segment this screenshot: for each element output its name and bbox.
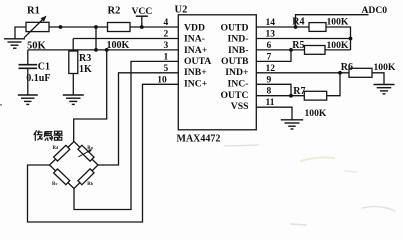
svg-text:R5: R5 bbox=[292, 40, 304, 51]
svg-text:R6: R6 bbox=[341, 62, 353, 73]
svg-text:IND-: IND- bbox=[228, 34, 249, 45]
svg-text:OUTB: OUTB bbox=[221, 56, 249, 67]
svg-text:R7: R7 bbox=[293, 86, 305, 97]
svg-text:VDD: VDD bbox=[184, 22, 205, 33]
svg-text:100K: 100K bbox=[374, 62, 396, 73]
svg-text:12: 12 bbox=[266, 64, 276, 74]
svg-text:MAX4472: MAX4472 bbox=[177, 133, 221, 144]
svg-text:13: 13 bbox=[266, 30, 276, 40]
svg-text:OUTA: OUTA bbox=[184, 56, 211, 67]
svg-text:IND+: IND+ bbox=[225, 67, 249, 78]
svg-text:INA-: INA- bbox=[184, 34, 205, 45]
svg-text:8: 8 bbox=[267, 87, 272, 97]
svg-text:10: 10 bbox=[157, 75, 167, 85]
svg-text:100K: 100K bbox=[327, 40, 349, 51]
svg-text:R2: R2 bbox=[108, 6, 121, 17]
svg-text:ADC0: ADC0 bbox=[362, 5, 388, 16]
svg-text:0.1uF: 0.1uF bbox=[26, 73, 50, 84]
svg-text:100K: 100K bbox=[327, 17, 349, 28]
svg-text:R4: R4 bbox=[292, 17, 304, 28]
svg-text:OUTC: OUTC bbox=[221, 90, 249, 101]
svg-text:OUTD: OUTD bbox=[221, 22, 249, 33]
svg-text:INC-: INC- bbox=[228, 79, 249, 90]
svg-text:INC+: INC+ bbox=[184, 79, 208, 90]
svg-text:1: 1 bbox=[164, 52, 169, 62]
svg-text:6: 6 bbox=[267, 41, 272, 51]
svg-text:R3: R3 bbox=[79, 53, 91, 64]
svg-text:R1: R1 bbox=[27, 6, 40, 17]
svg-text:3: 3 bbox=[164, 41, 169, 51]
svg-text:VSS: VSS bbox=[231, 101, 249, 112]
svg-text:100K: 100K bbox=[107, 40, 130, 51]
svg-text:C1: C1 bbox=[38, 62, 50, 73]
svg-text:100K: 100K bbox=[305, 108, 327, 119]
svg-text:INB+: INB+ bbox=[184, 67, 207, 78]
svg-text:50K: 50K bbox=[27, 40, 47, 51]
svg-text:1K: 1K bbox=[79, 64, 92, 75]
svg-text:7: 7 bbox=[267, 52, 272, 62]
svg-text:U2: U2 bbox=[175, 4, 188, 15]
svg-text:4: 4 bbox=[164, 18, 169, 28]
svg-text:14: 14 bbox=[266, 18, 276, 28]
svg-text:INA+: INA+ bbox=[184, 45, 208, 56]
svg-text:2: 2 bbox=[164, 30, 169, 40]
svg-text:VCC: VCC bbox=[132, 6, 153, 17]
svg-text:INB-: INB- bbox=[228, 45, 248, 56]
svg-text:11: 11 bbox=[266, 98, 275, 108]
svg-text:5: 5 bbox=[164, 64, 169, 74]
svg-text:9: 9 bbox=[267, 75, 272, 85]
